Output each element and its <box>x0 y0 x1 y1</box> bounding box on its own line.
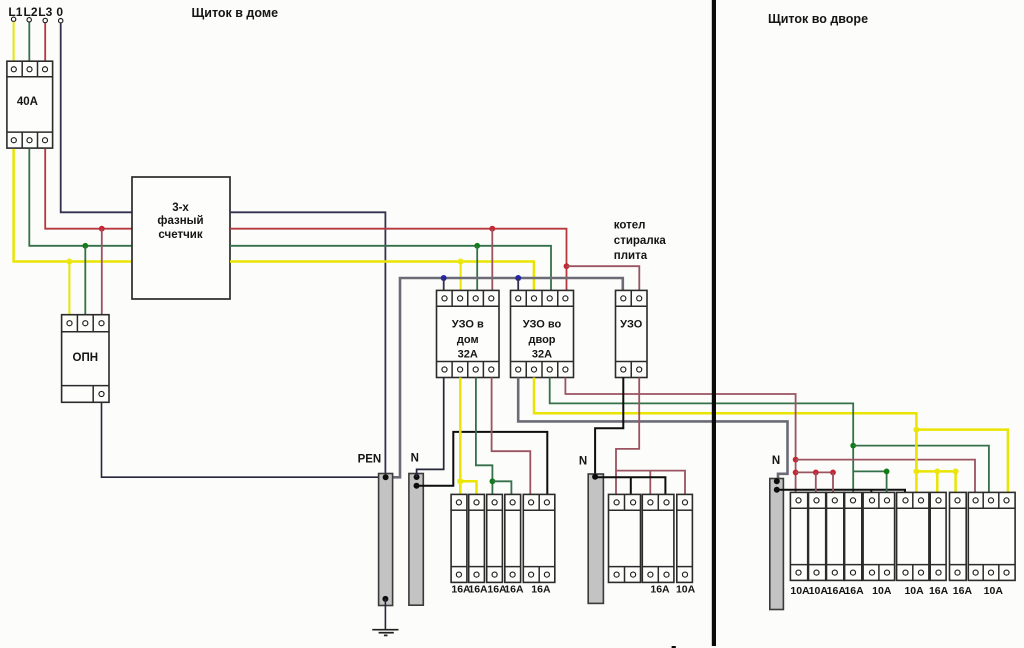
breaker Y8 16A <box>950 492 967 580</box>
breaker R2-1/2 2-pole boiler <box>609 494 641 582</box>
wire yellow riser lower <box>915 430 918 493</box>
svg-text:32А: 32А <box>532 348 552 360</box>
wire L3 red drop to 40A <box>44 23 46 61</box>
node junction yellow breakers <box>457 478 463 484</box>
breaker Y5 10A 2-pole <box>863 492 895 580</box>
meter 3-phase (3-х фазный счетчик) <box>132 177 230 299</box>
wire UZO1 neutral out to N bar <box>417 378 444 478</box>
wire dark-red drop to OPN <box>101 229 103 316</box>
breaker Y4 16A <box>845 492 862 580</box>
wire yellow drop to OPN <box>68 262 70 316</box>
wire dark-red drop to UZO1 L-in <box>491 229 493 291</box>
RCD U2 УЗО во двор 32А <box>511 290 574 377</box>
node junction dark-red drop s2 <box>813 470 819 476</box>
node junction green breakers <box>490 478 496 484</box>
breaker B2 16A <box>469 494 485 582</box>
svg-text:10А: 10А <box>676 584 696 596</box>
mark at bottom <box>672 646 676 648</box>
wire green UZO1 out to breakers <box>476 378 493 495</box>
breaker Y6 10A 2-pole <box>897 492 929 580</box>
breaker Y9 10A 3-pole <box>968 492 1015 580</box>
svg-text:16А: 16А <box>953 585 973 597</box>
svg-text:10А: 10А <box>984 585 1004 597</box>
svg-text:N: N <box>579 456 587 468</box>
wire green UZO2 out to yard <box>550 378 854 495</box>
wire green branch to breaker 4 <box>492 481 511 494</box>
wire yellow yard bus <box>916 470 955 473</box>
breaker 40A (3-pole main) <box>7 61 53 148</box>
svg-text:плита: плита <box>614 250 648 262</box>
svg-text:10А: 10А <box>790 585 810 597</box>
wire dark-red branch to 3-pole <box>796 460 975 493</box>
node junction yellow yard riser <box>913 427 919 433</box>
busbar N house <box>409 474 423 606</box>
wire dark-red drop s2 <box>815 472 817 492</box>
label котел стиралка плита <box>614 220 667 263</box>
node junction yellow yard bus <box>913 468 919 474</box>
wire L2 green 40A to meter <box>29 149 132 246</box>
terminal 0 <box>59 19 63 23</box>
node junction neutral UZO2 <box>515 275 521 281</box>
wire dark-red yard bus <box>796 471 833 473</box>
wire neutral from meter to PEN bar <box>230 212 385 475</box>
ground symbol <box>372 630 398 636</box>
busbar PEN <box>379 474 393 606</box>
wire L3 red 40A to meter <box>45 149 132 229</box>
surge arrester OPN <box>62 315 109 403</box>
wire dark-red drop breaker R2-3 <box>649 471 651 495</box>
node PEN bottom <box>382 596 388 602</box>
wire dark-red drop s3 <box>832 472 834 492</box>
svg-text:16А: 16А <box>504 584 524 596</box>
svg-text:Щиток в доме: Щиток в доме <box>192 6 279 20</box>
svg-text:счетчик: счетчик <box>158 229 202 241</box>
svg-text:40А: 40А <box>17 96 38 108</box>
svg-text:стиралка: стиралка <box>614 235 667 247</box>
svg-text:УЗО в: УЗО в <box>452 319 484 331</box>
wire yellow UZO2 out to yard <box>534 378 916 472</box>
wire yellow drop to UZO1 L-in <box>460 262 462 291</box>
breaker B1 16A <box>451 494 467 582</box>
node junction green drop d1 <box>884 469 890 475</box>
node N house second <box>414 483 420 489</box>
wire L2 green drop to 40A <box>28 22 30 61</box>
wire green drop to OPN <box>84 246 86 316</box>
svg-text:N: N <box>772 455 780 467</box>
svg-text:фазный: фазный <box>157 215 203 227</box>
svg-text:PEN: PEN <box>358 453 382 465</box>
wire UZO3 neutral out to N2 bar <box>595 378 623 477</box>
svg-text:16А: 16А <box>650 584 670 596</box>
svg-text:16А: 16А <box>468 584 488 596</box>
node junction yellow to OPN <box>66 259 72 265</box>
svg-text:УЗО: УЗО <box>620 319 643 331</box>
breaker R2-5 stove 10A <box>677 494 693 582</box>
svg-text:32А: 32А <box>458 348 478 360</box>
node N house top <box>414 474 420 480</box>
wire L2 green from meter <box>230 246 551 291</box>
svg-text:котел: котел <box>614 220 646 232</box>
node N yard second <box>774 487 780 493</box>
breaker Y3 16A <box>827 492 844 580</box>
wire N boiler to breakers <box>595 477 665 494</box>
terminal L1 <box>11 17 15 21</box>
breaker R2-3/4 2-pole washer 16A <box>642 494 674 582</box>
wire neutral stub UZO2 <box>517 278 519 291</box>
svg-text:0: 0 <box>56 5 63 19</box>
node junction red to OPN <box>99 226 105 232</box>
wire yellow UZO1 out to breakers <box>459 378 462 495</box>
node junction neutral UZO1 <box>441 275 447 281</box>
svg-text:L1: L1 <box>8 5 22 19</box>
wire green drop to UZO1 L-in <box>476 246 478 291</box>
svg-text:16А: 16А <box>929 585 949 597</box>
RCD U1 УЗО в дом 32А <box>437 290 500 377</box>
wire green branch to d1 <box>853 471 886 492</box>
node junction yellow to UZO1 <box>458 259 464 265</box>
wire green branch to 3-pole <box>853 446 989 493</box>
wire OPN earth lead to PEN bar <box>102 402 384 477</box>
breaker Y1 10A <box>790 492 807 580</box>
wire 0 neutral drop (passes right of 40A) <box>61 23 132 212</box>
node junction dark-red drop s3 <box>830 470 836 476</box>
RCD U3 УЗО котельной группы <box>616 290 648 377</box>
svg-text:3-х: 3-х <box>172 202 189 214</box>
wire N bar to breaker pair B5 (2-pole) <box>417 432 548 495</box>
terminal L3 <box>43 18 47 22</box>
node junction red to UZO1 <box>489 226 495 232</box>
wire dark-red UZO2 out to yard <box>565 378 795 495</box>
wire N drop yard d1 <box>870 490 872 493</box>
wire N drop breaker R2-2 <box>630 477 632 494</box>
wire L1 yellow 40A to meter <box>14 149 132 262</box>
busbar N yard <box>770 479 784 610</box>
svg-text:16А: 16А <box>531 584 551 596</box>
svg-text:16А: 16А <box>827 585 847 597</box>
svg-text:ОПН: ОПН <box>73 352 99 364</box>
wire dark-red branch to UZO3 <box>567 266 640 291</box>
node PEN top <box>383 474 389 480</box>
node N boiler top <box>592 474 598 480</box>
svg-text:10А: 10А <box>904 585 924 597</box>
svg-text:УЗО во: УЗО во <box>523 319 562 331</box>
svg-text:дом: дом <box>457 334 479 346</box>
node junction green to UZO1 <box>474 243 480 249</box>
svg-text:L2: L2 <box>23 5 37 19</box>
wire yellow drop s6 <box>954 471 957 492</box>
wire yellow branch to 3-pole <box>916 430 1008 493</box>
breaker B5 16A 2-pole <box>523 494 555 582</box>
svg-text:16А: 16А <box>844 585 864 597</box>
svg-text:10А: 10А <box>809 585 829 597</box>
node junction red to UZO3 branch <box>564 263 570 269</box>
breaker Y2 10A <box>809 492 826 580</box>
wire yellow drop s5 <box>936 471 939 492</box>
node junction green yard riser <box>850 443 856 449</box>
svg-text:N: N <box>411 453 419 465</box>
node junction yellow drop s6 <box>953 468 959 474</box>
breaker B4 16A <box>505 494 521 582</box>
wire PEN to earth <box>384 599 386 630</box>
wire dark-red UZO3 out to boiler breakers <box>616 378 639 495</box>
svg-text:двор: двор <box>528 334 555 346</box>
wire neutral UZO2 out to yard N bar <box>518 378 787 482</box>
wire L1 yellow from meter <box>230 262 534 291</box>
wire dark-red bus boiler group <box>616 471 685 495</box>
wire neutral stub UZO1 <box>443 278 445 291</box>
svg-text:10А: 10А <box>872 585 892 597</box>
wire L1 yellow drop to 40A <box>13 22 15 61</box>
terminal L2 <box>27 18 31 22</box>
wire yellow branch to breaker 2 <box>460 481 476 494</box>
svg-text:Щиток во дворе: Щиток во дворе <box>768 12 868 26</box>
breaker Y7 16A <box>930 492 946 580</box>
busbar N boiler <box>588 474 603 603</box>
wire grey neutral bus to UZO inputs <box>386 278 623 477</box>
node junction green to OPN <box>82 243 88 249</box>
wire dark-red UZO1 out to breaker 5 <box>492 378 531 495</box>
node junction yellow drop s5 <box>934 468 940 474</box>
wire L3 red from meter <box>230 229 567 291</box>
wire N yard to 2-pole breakers <box>777 490 905 493</box>
node junction dark-red yard bus <box>793 470 799 476</box>
svg-text:L3: L3 <box>38 5 52 19</box>
breaker B3 16A <box>487 494 503 582</box>
node junction dark-red yard riser <box>793 457 799 463</box>
node N yard top <box>774 478 780 484</box>
panel divider line <box>712 0 716 646</box>
